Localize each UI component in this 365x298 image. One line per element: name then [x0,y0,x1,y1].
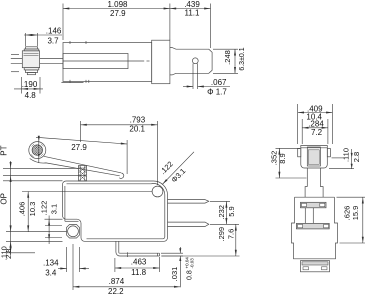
svg-text:Φ 1.7: Φ 1.7 [207,88,227,97]
svg-text:.122: .122 [40,201,49,216]
svg-text:4.8: 4.8 [25,91,37,100]
svg-text:.031: .031 [170,267,179,282]
svg-text:15.9: 15.9 [351,206,360,221]
svg-text:27.9: 27.9 [110,9,126,18]
svg-text:.299: .299 [217,227,226,242]
svg-text:2.8: 2.8 [4,249,13,259]
svg-text:10.3: 10.3 [28,202,37,217]
svg-text:3.7: 3.7 [47,36,59,45]
svg-text:.232: .232 [217,205,226,220]
svg-text:.463: .463 [131,258,147,267]
svg-text:.874: .874 [109,277,125,286]
svg-text:1.098: 1.098 [107,0,128,9]
svg-text:.110: .110 [342,148,351,162]
svg-text:6.3±0.1: 6.3±0.1 [239,47,246,70]
svg-text:11.8: 11.8 [131,268,147,277]
svg-text:.248: .248 [223,50,232,65]
svg-text:11.1: 11.1 [185,8,201,17]
svg-text:7.2: 7.2 [311,128,323,137]
svg-text:PT: PT [0,145,9,155]
svg-text:8.9: 8.9 [278,153,287,163]
svg-text:0.8: 0.8 [187,270,194,280]
svg-text:-0.03: -0.03 [190,258,195,269]
svg-text:3.1: 3.1 [50,204,59,214]
svg-text:3.4: 3.4 [45,269,57,278]
svg-text:.793: .793 [130,115,146,124]
svg-text:5.9: 5.9 [227,206,236,216]
svg-text:20.1: 20.1 [129,124,145,133]
svg-text:2.8: 2.8 [352,152,361,162]
svg-text:7.6: 7.6 [227,229,236,239]
svg-text:.134: .134 [43,259,59,268]
svg-text:27.9: 27.9 [71,143,87,152]
svg-text:.406: .406 [18,202,27,217]
svg-text:22.2: 22.2 [108,287,124,296]
svg-text:.146: .146 [46,26,62,35]
svg-text:OP: OP [0,193,9,205]
svg-text:.190: .190 [22,80,38,89]
svg-text:.067: .067 [211,78,227,87]
